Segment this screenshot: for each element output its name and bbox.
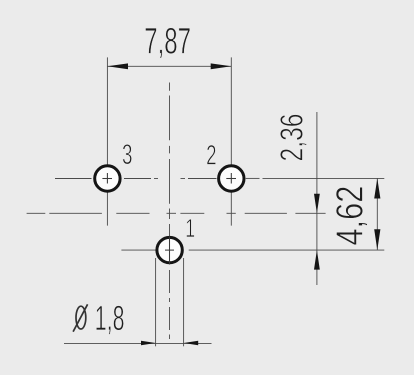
extension line pin1 left tangent <box>155 258 157 346</box>
arrow up (4,62) <box>374 178 380 198</box>
svg-text:1,8: 1,8 <box>95 299 125 338</box>
arrow left of 7,87 <box>107 63 128 69</box>
svg-text:7,87: 7,87 <box>144 20 191 61</box>
pin 2 circle <box>219 166 244 191</box>
svg-text:3: 3 <box>122 139 132 171</box>
diameter symbol of 1,8 label <box>73 304 88 331</box>
pin 1 circle <box>157 237 182 262</box>
main vertical centerline (dash-dot) <box>169 83 171 91</box>
pin3 horizontal centerline <box>55 178 92 180</box>
arrow up to pin1 line (2,36) <box>314 250 320 270</box>
arrow left to right tangent (dia 1,8) <box>184 341 199 346</box>
pin2 crosshair right / extension to dimensions <box>246 177 260 179</box>
main horizontal centerline (dash-dot) <box>27 212 46 214</box>
pin2 center mark <box>226 178 236 180</box>
pin3 center mark <box>102 178 112 180</box>
pin 3 circle <box>95 166 120 191</box>
extension line left (pin3 vertical centerline) <box>106 57 108 225</box>
svg-text:2,36: 2,36 <box>274 114 310 162</box>
arrow right of 7,87 <box>211 63 232 69</box>
dimension line 7,87 <box>107 65 231 67</box>
arrow right to left tangent (dia 1,8) <box>141 341 156 346</box>
pin1 horizontal centerline <box>121 249 156 251</box>
dimension line diameter 1,8 <box>64 342 212 344</box>
pin1 center mark and centerline through pin1 <box>165 249 174 251</box>
arrow down (4,62) <box>374 229 380 250</box>
pin1 crosshair right / extension line to dimensions <box>189 249 385 251</box>
arrow down to centerline (2,36) <box>314 194 320 214</box>
extension line right (pin2 vertical centerline) <box>230 57 232 225</box>
dimension line 2,36 <box>316 112 318 285</box>
svg-text:1: 1 <box>185 213 195 243</box>
extension line pin1 right tangent <box>183 258 185 346</box>
pin2 horizontal centerline <box>181 178 186 180</box>
dimension line 4,62 <box>376 178 378 250</box>
svg-text:4,62: 4,62 <box>329 186 371 246</box>
svg-text:2: 2 <box>206 139 216 170</box>
